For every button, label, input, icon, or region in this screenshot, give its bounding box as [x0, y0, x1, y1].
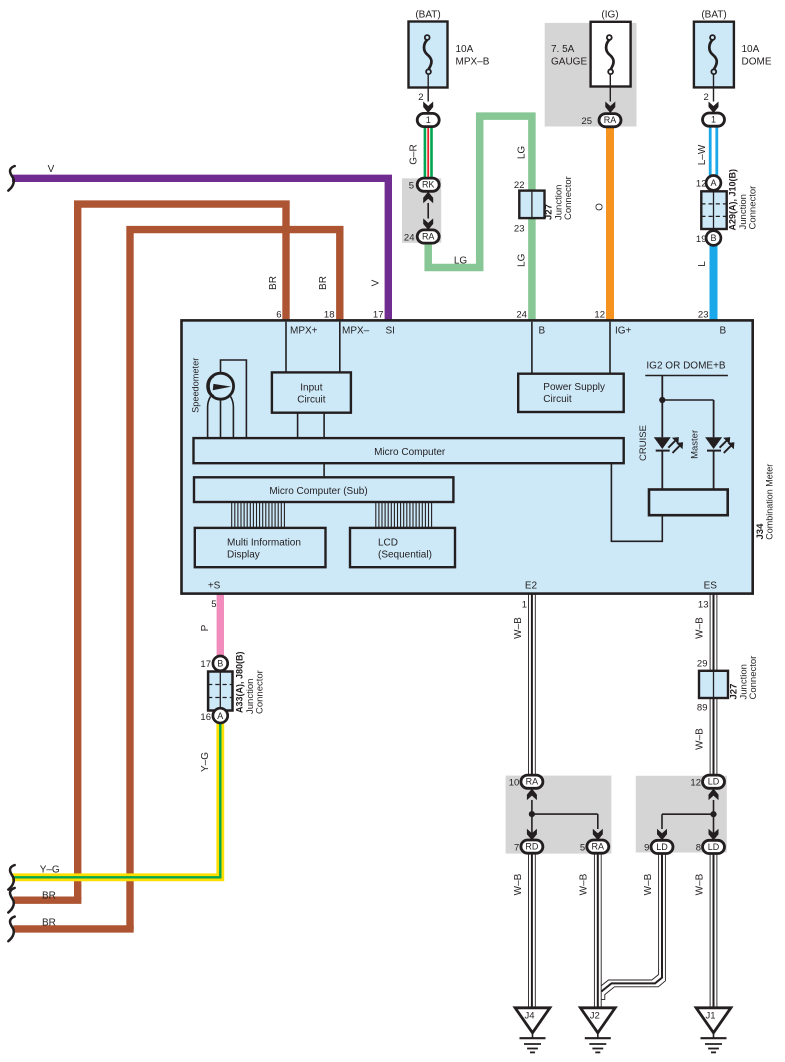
fuse 10A MPX-B (BAT) — [409, 22, 448, 88]
wire micro computer to sub — [323, 463, 325, 477]
svg-text:Connector: Connector — [748, 656, 759, 700]
svg-text:RA: RA — [422, 232, 435, 242]
svg-text:RA: RA — [526, 777, 539, 787]
micro computer (sub) box — [194, 477, 453, 502]
fuse 10A DOME (BAT) — [694, 22, 734, 88]
arrow into RD7 — [527, 829, 537, 841]
svg-text:(Sequential): (Sequential) — [378, 550, 432, 561]
svg-text:MPX–B: MPX–B — [456, 57, 490, 68]
svg-text:G–R: G–R — [409, 144, 420, 165]
pin 2 of fuse MPX-B — [427, 74, 429, 101]
connector oval 1 below MPX-B fuse — [417, 113, 439, 126]
svg-text:J2: J2 — [590, 1011, 600, 1022]
ground J4 — [515, 1008, 550, 1033]
svg-text:B: B — [710, 233, 716, 243]
wire W-B from RD7 to ground J4 — [528, 853, 530, 1007]
arrow into RA5 — [593, 829, 603, 841]
svg-text:23: 23 — [698, 309, 709, 320]
svg-text:(IG): (IG) — [601, 10, 618, 21]
svg-text:MPX–: MPX– — [342, 326, 370, 337]
svg-text:Y–G: Y–G — [40, 865, 60, 876]
svg-text:W–B: W–B — [694, 873, 705, 895]
svg-text:Micro Computer (Sub): Micro Computer (Sub) — [269, 486, 367, 497]
svg-text:SI: SI — [386, 326, 395, 337]
shield box around LD12/LD9/LD8 splice group — [636, 776, 727, 853]
svg-text:A33(A), J80(B): A33(A), J80(B) — [235, 651, 245, 713]
wire Y-G from connector A16 to left edge — [12, 721, 220, 877]
arrow into LD8 — [709, 829, 719, 841]
LCD sequential box — [350, 528, 455, 567]
svg-text:24: 24 — [404, 232, 415, 243]
svg-text:W–B: W–B — [694, 617, 705, 639]
micro computer box — [194, 438, 624, 463]
svg-text:17: 17 — [373, 309, 384, 320]
splice junction dot LD — [710, 811, 716, 817]
svg-text:Y–G: Y–G — [200, 752, 211, 772]
svg-text:Input: Input — [300, 383, 322, 394]
wire W-B from J27 to LD12 — [709, 698, 711, 776]
svg-text:17: 17 — [200, 659, 211, 670]
wire G-R from fuse oval 1 to RK5 — [424, 124, 427, 180]
svg-text:BR: BR — [42, 918, 56, 929]
svg-text:5: 5 — [211, 599, 216, 610]
svg-text:10: 10 — [509, 778, 520, 789]
multi information display box — [195, 528, 326, 567]
svg-text:V: V — [371, 279, 382, 286]
LED CRUISE — [661, 376, 663, 438]
svg-text:5: 5 — [409, 180, 414, 191]
shield box around GAUGE fuse and splice RA25 — [545, 23, 637, 127]
svg-text:24: 24 — [516, 309, 527, 320]
svg-text:2: 2 — [418, 92, 423, 103]
svg-text:J1: J1 — [705, 1011, 715, 1022]
svg-text:B: B — [539, 326, 546, 337]
svg-text:10A: 10A — [456, 44, 474, 55]
pin line of fuse GAUGE — [609, 74, 611, 101]
pin 2 of fuse DOME — [713, 74, 715, 101]
svg-text:V: V — [48, 164, 55, 175]
junction connector A33(A), J80(B) body — [208, 672, 232, 711]
svg-text:6: 6 — [276, 309, 281, 320]
wire P (pink) from +S pin 5 to connector B17 — [217, 594, 224, 657]
wire L-W from fuse oval 1 to connector A12 — [709, 124, 712, 177]
splice junction dot — [529, 811, 535, 817]
svg-text:+S: +S — [208, 581, 221, 592]
svg-text:18: 18 — [324, 309, 335, 320]
svg-text:Connector: Connector — [747, 186, 758, 230]
svg-text:12: 12 — [690, 778, 701, 789]
wire O (orange) from RA25 to IG+ pin 12 — [606, 124, 614, 320]
LED Master — [713, 400, 715, 437]
shield box around RK/RA connectors — [402, 178, 441, 243]
svg-text:MPX+: MPX+ — [290, 326, 318, 337]
svg-text:LG: LG — [517, 253, 528, 267]
svg-text:29: 29 — [697, 659, 708, 670]
ground J2 — [580, 1008, 615, 1033]
power supply circuit box — [531, 322, 533, 374]
arrows between RK and RA — [423, 192, 433, 204]
svg-text:(BAT): (BAT) — [701, 10, 726, 21]
connector oval 1 below DOME fuse — [703, 113, 725, 126]
svg-text:BR: BR — [42, 891, 56, 902]
svg-text:W–B: W–B — [513, 873, 524, 895]
svg-text:LG: LG — [517, 146, 528, 160]
wire W-B from ES to J27 — [709, 594, 711, 671]
svg-text:L: L — [697, 261, 708, 267]
svg-text:Power Supply: Power Supply — [543, 382, 605, 393]
input circuit box — [272, 372, 351, 412]
svg-text:RD: RD — [525, 842, 538, 852]
wire lamp driver box to micro computer — [611, 463, 662, 541]
svg-text:1: 1 — [426, 115, 431, 125]
combination meter J34 box — [182, 320, 753, 593]
svg-text:8: 8 — [696, 843, 701, 854]
svg-text:5: 5 — [580, 843, 585, 854]
svg-text:(BAT): (BAT) — [415, 10, 440, 21]
svg-text:IG+: IG+ — [615, 326, 632, 337]
svg-text:7: 7 — [514, 843, 519, 854]
svg-text:J4: J4 — [524, 1011, 534, 1022]
svg-text:A: A — [217, 711, 223, 721]
wire W-B from LD8 to ground J1 — [709, 854, 711, 1008]
wire V (violet) from left edge to SI pin 17 — [12, 178, 388, 320]
svg-text:2: 2 — [704, 92, 709, 103]
svg-text:9: 9 — [644, 843, 649, 854]
svg-text:Circuit: Circuit — [297, 395, 326, 406]
arrow into LD9 — [657, 829, 667, 841]
bus hatch to LCD — [375, 502, 377, 528]
svg-text:Connector: Connector — [563, 176, 574, 220]
svg-text:A29(A), J10(B): A29(A), J10(B) — [728, 169, 738, 231]
svg-text:1: 1 — [522, 600, 527, 611]
continuation squiggle Y-G wire — [8, 865, 14, 890]
svg-text:Circuit: Circuit — [543, 394, 572, 405]
svg-text:E2: E2 — [525, 581, 538, 592]
svg-text:DOME: DOME — [742, 57, 772, 68]
svg-text:W–B: W–B — [643, 873, 654, 895]
svg-text:LD: LD — [708, 777, 720, 787]
svg-text:7. 5A: 7. 5A — [551, 44, 575, 55]
wire W-B from LD9 joining ground J2 — [601, 854, 658, 986]
shield box around RA10/RD7/RA5 splice group — [506, 776, 612, 854]
ground J1 — [696, 1008, 731, 1033]
svg-text:1: 1 — [711, 115, 716, 125]
svg-text:A: A — [710, 178, 716, 188]
wire BR outer from left edge to MPX+ pin 6 — [78, 204, 286, 900]
svg-text:B: B — [720, 326, 727, 337]
svg-text:W–B: W–B — [694, 728, 705, 750]
svg-text:BR: BR — [318, 276, 329, 290]
svg-text:12: 12 — [594, 309, 605, 320]
svg-text:23: 23 — [514, 224, 525, 235]
svg-text:13: 13 — [698, 600, 709, 611]
svg-text:22: 22 — [514, 180, 525, 191]
bus hatch to multi information display — [231, 502, 233, 528]
lamp driver box — [649, 490, 728, 516]
svg-text:Connector: Connector — [255, 670, 266, 714]
svg-text:P: P — [200, 624, 211, 631]
svg-text:Multi Information: Multi Information — [227, 538, 301, 549]
wire LG from RA24 to junction J27 and meter pin 24 — [428, 116, 532, 320]
svg-text:B: B — [217, 659, 223, 669]
svg-text:LD: LD — [656, 842, 668, 852]
svg-text:16: 16 — [200, 712, 211, 723]
svg-text:LD: LD — [708, 842, 720, 852]
svg-text:LCD: LCD — [378, 538, 398, 549]
svg-text:RA: RA — [604, 115, 617, 125]
svg-text:LG: LG — [454, 256, 468, 267]
svg-text:Combination Meter: Combination Meter — [765, 464, 775, 540]
wires input circuit to micro computer — [297, 413, 299, 438]
svg-text:ES: ES — [704, 581, 718, 592]
speedometer symbol — [285, 322, 287, 373]
svg-text:Display: Display — [227, 550, 260, 561]
continuation squiggle BR wire 1 — [8, 888, 14, 913]
svg-text:O: O — [595, 203, 606, 211]
wire BR inner from left edge to MPX- pin 18 — [130, 230, 340, 929]
fuse 7.5A GAUGE (IG) — [591, 22, 631, 87]
svg-text:W–B: W–B — [513, 617, 524, 639]
svg-text:10A: 10A — [742, 44, 760, 55]
wire W-B from E2 to RA10 — [528, 594, 530, 776]
svg-text:W–B: W–B — [579, 873, 590, 895]
svg-text:IG2 OR DOME+B: IG2 OR DOME+B — [646, 361, 726, 372]
svg-text:25: 25 — [581, 116, 592, 127]
svg-text:Speedometer: Speedometer — [190, 358, 200, 413]
wire W-B from RA5 to ground J2 — [593, 853, 595, 1007]
wire L (blue) from connector B19 to B pin 23 — [710, 244, 718, 320]
svg-text:RK: RK — [422, 180, 435, 190]
svg-text:RA: RA — [592, 842, 605, 852]
svg-text:GAUGE: GAUGE — [551, 57, 587, 68]
continuation squiggle V wire — [8, 166, 14, 191]
junction connector A29(A), J10(B) body — [701, 191, 726, 229]
svg-text:89: 89 — [697, 703, 708, 714]
svg-text:Micro Computer: Micro Computer — [374, 447, 446, 458]
continuation squiggle BR wire 2 — [8, 917, 14, 942]
svg-text:L–W: L–W — [697, 144, 708, 165]
svg-text:BR: BR — [268, 276, 279, 290]
svg-text:Master: Master — [690, 430, 701, 459]
svg-text:CRUISE: CRUISE — [638, 425, 649, 461]
